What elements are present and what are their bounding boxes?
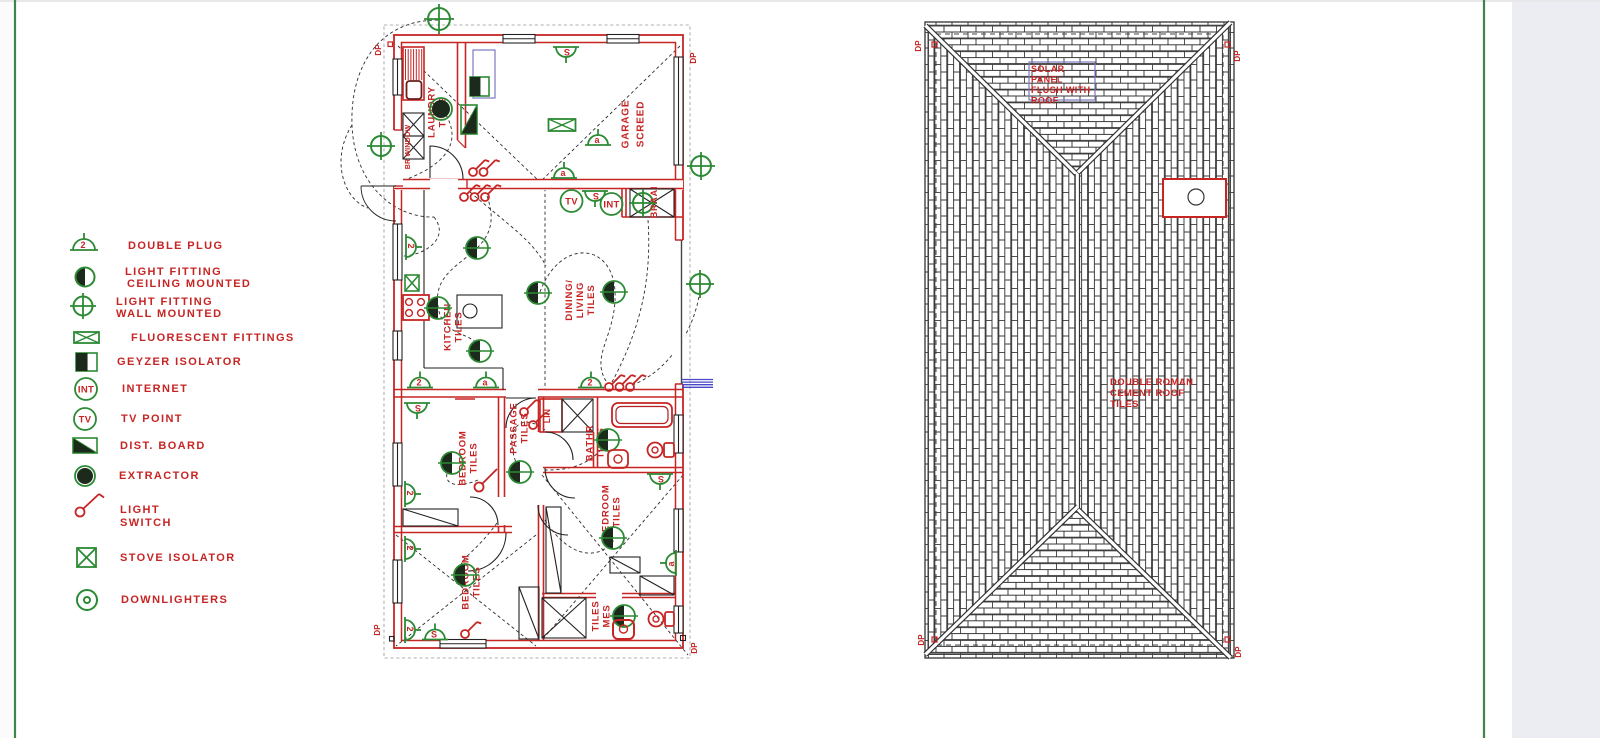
svg-text:S: S (658, 474, 664, 484)
svg-text:TILES: TILES (591, 601, 602, 632)
svg-text:DOUBLE PLUG: DOUBLE PLUG (128, 240, 223, 252)
svg-text:DOWNLIGHTERS: DOWNLIGHTERS (121, 594, 228, 606)
svg-text:TV: TV (79, 415, 92, 426)
svg-text:FLUORESCENT FITTINGS: FLUORESCENT FITTINGS (131, 332, 295, 344)
svg-text:TILES: TILES (469, 443, 480, 474)
svg-text:BEDROOM: BEDROOM (458, 430, 469, 485)
svg-text:DP: DP (689, 52, 698, 64)
svg-text:DP: DP (914, 40, 923, 52)
svg-text:STOVE ISOLATOR: STOVE ISOLATOR (120, 552, 236, 564)
svg-text:S: S (415, 403, 421, 413)
svg-text:2: 2 (80, 240, 85, 250)
svg-text:2: 2 (405, 545, 415, 550)
svg-text:TILES: TILES (612, 497, 623, 528)
svg-text:TV: TV (565, 197, 578, 208)
svg-text:BR WINDOW: BR WINDOW (405, 125, 412, 170)
svg-text:LIGHT FITTING: LIGHT FITTING (125, 266, 222, 278)
svg-text:WALL MOUNTED: WALL MOUNTED (116, 308, 222, 320)
svg-text:CEILING MOUNTED: CEILING MOUNTED (127, 278, 251, 290)
svg-text:2: 2 (406, 243, 416, 248)
svg-text:LIVING: LIVING (575, 282, 586, 318)
svg-text:BATHR: BATHR (585, 425, 596, 462)
svg-text:S: S (431, 629, 437, 639)
svg-text:SWITCH: SWITCH (120, 517, 172, 529)
svg-text:INTERNET: INTERNET (122, 383, 188, 395)
svg-text:DP: DP (690, 642, 699, 654)
svg-text:EXTRACTOR: EXTRACTOR (119, 470, 200, 482)
svg-text:DP: DP (373, 624, 382, 636)
svg-text:GEYZER ISOLATOR: GEYZER ISOLATOR (117, 356, 242, 368)
svg-text:2: 2 (587, 377, 592, 387)
svg-text:INT: INT (78, 385, 94, 396)
svg-text:DIST. BOARD: DIST. BOARD (120, 440, 206, 452)
svg-text:TILES: TILES (454, 312, 465, 343)
svg-text:TV POINT: TV POINT (121, 413, 183, 425)
svg-text:S: S (593, 191, 599, 201)
svg-text:2: 2 (405, 626, 415, 631)
svg-text:PANEL: PANEL (1031, 75, 1063, 85)
svg-text:DINING/: DINING/ (564, 279, 575, 321)
svg-text:SOLAR: SOLAR (1031, 64, 1065, 74)
svg-text:TILES: TILES (520, 413, 531, 444)
svg-text:S: S (564, 47, 570, 57)
svg-text:LIN: LIN (542, 409, 552, 424)
svg-text:2: 2 (416, 377, 421, 387)
svg-text:2: 2 (405, 490, 415, 495)
svg-text:ROOF: ROOF (1031, 96, 1059, 106)
svg-text:DP: DP (1233, 50, 1242, 62)
svg-text:SCREED: SCREED (636, 101, 647, 147)
svg-text:LIGHT: LIGHT (120, 504, 160, 516)
svg-text:CEMENT ROOF: CEMENT ROOF (1110, 388, 1185, 399)
svg-text:PASSAGE: PASSAGE (509, 402, 520, 453)
svg-text:TILES: TILES (1110, 399, 1139, 410)
svg-text:LIGHT FITTING: LIGHT FITTING (116, 296, 213, 308)
svg-text:DP: DP (1234, 646, 1243, 658)
svg-text:DOUBLE ROMAN: DOUBLE ROMAN (1110, 377, 1193, 388)
svg-text:FLUSH WITH: FLUSH WITH (1031, 85, 1091, 95)
svg-text:TILES: TILES (586, 285, 597, 316)
svg-text:INT: INT (603, 200, 619, 211)
svg-text:DP: DP (917, 634, 926, 646)
svg-text:BRAAI: BRAAI (649, 186, 659, 219)
svg-text:GARAGE: GARAGE (621, 100, 632, 149)
svg-text:DP: DP (374, 44, 383, 56)
